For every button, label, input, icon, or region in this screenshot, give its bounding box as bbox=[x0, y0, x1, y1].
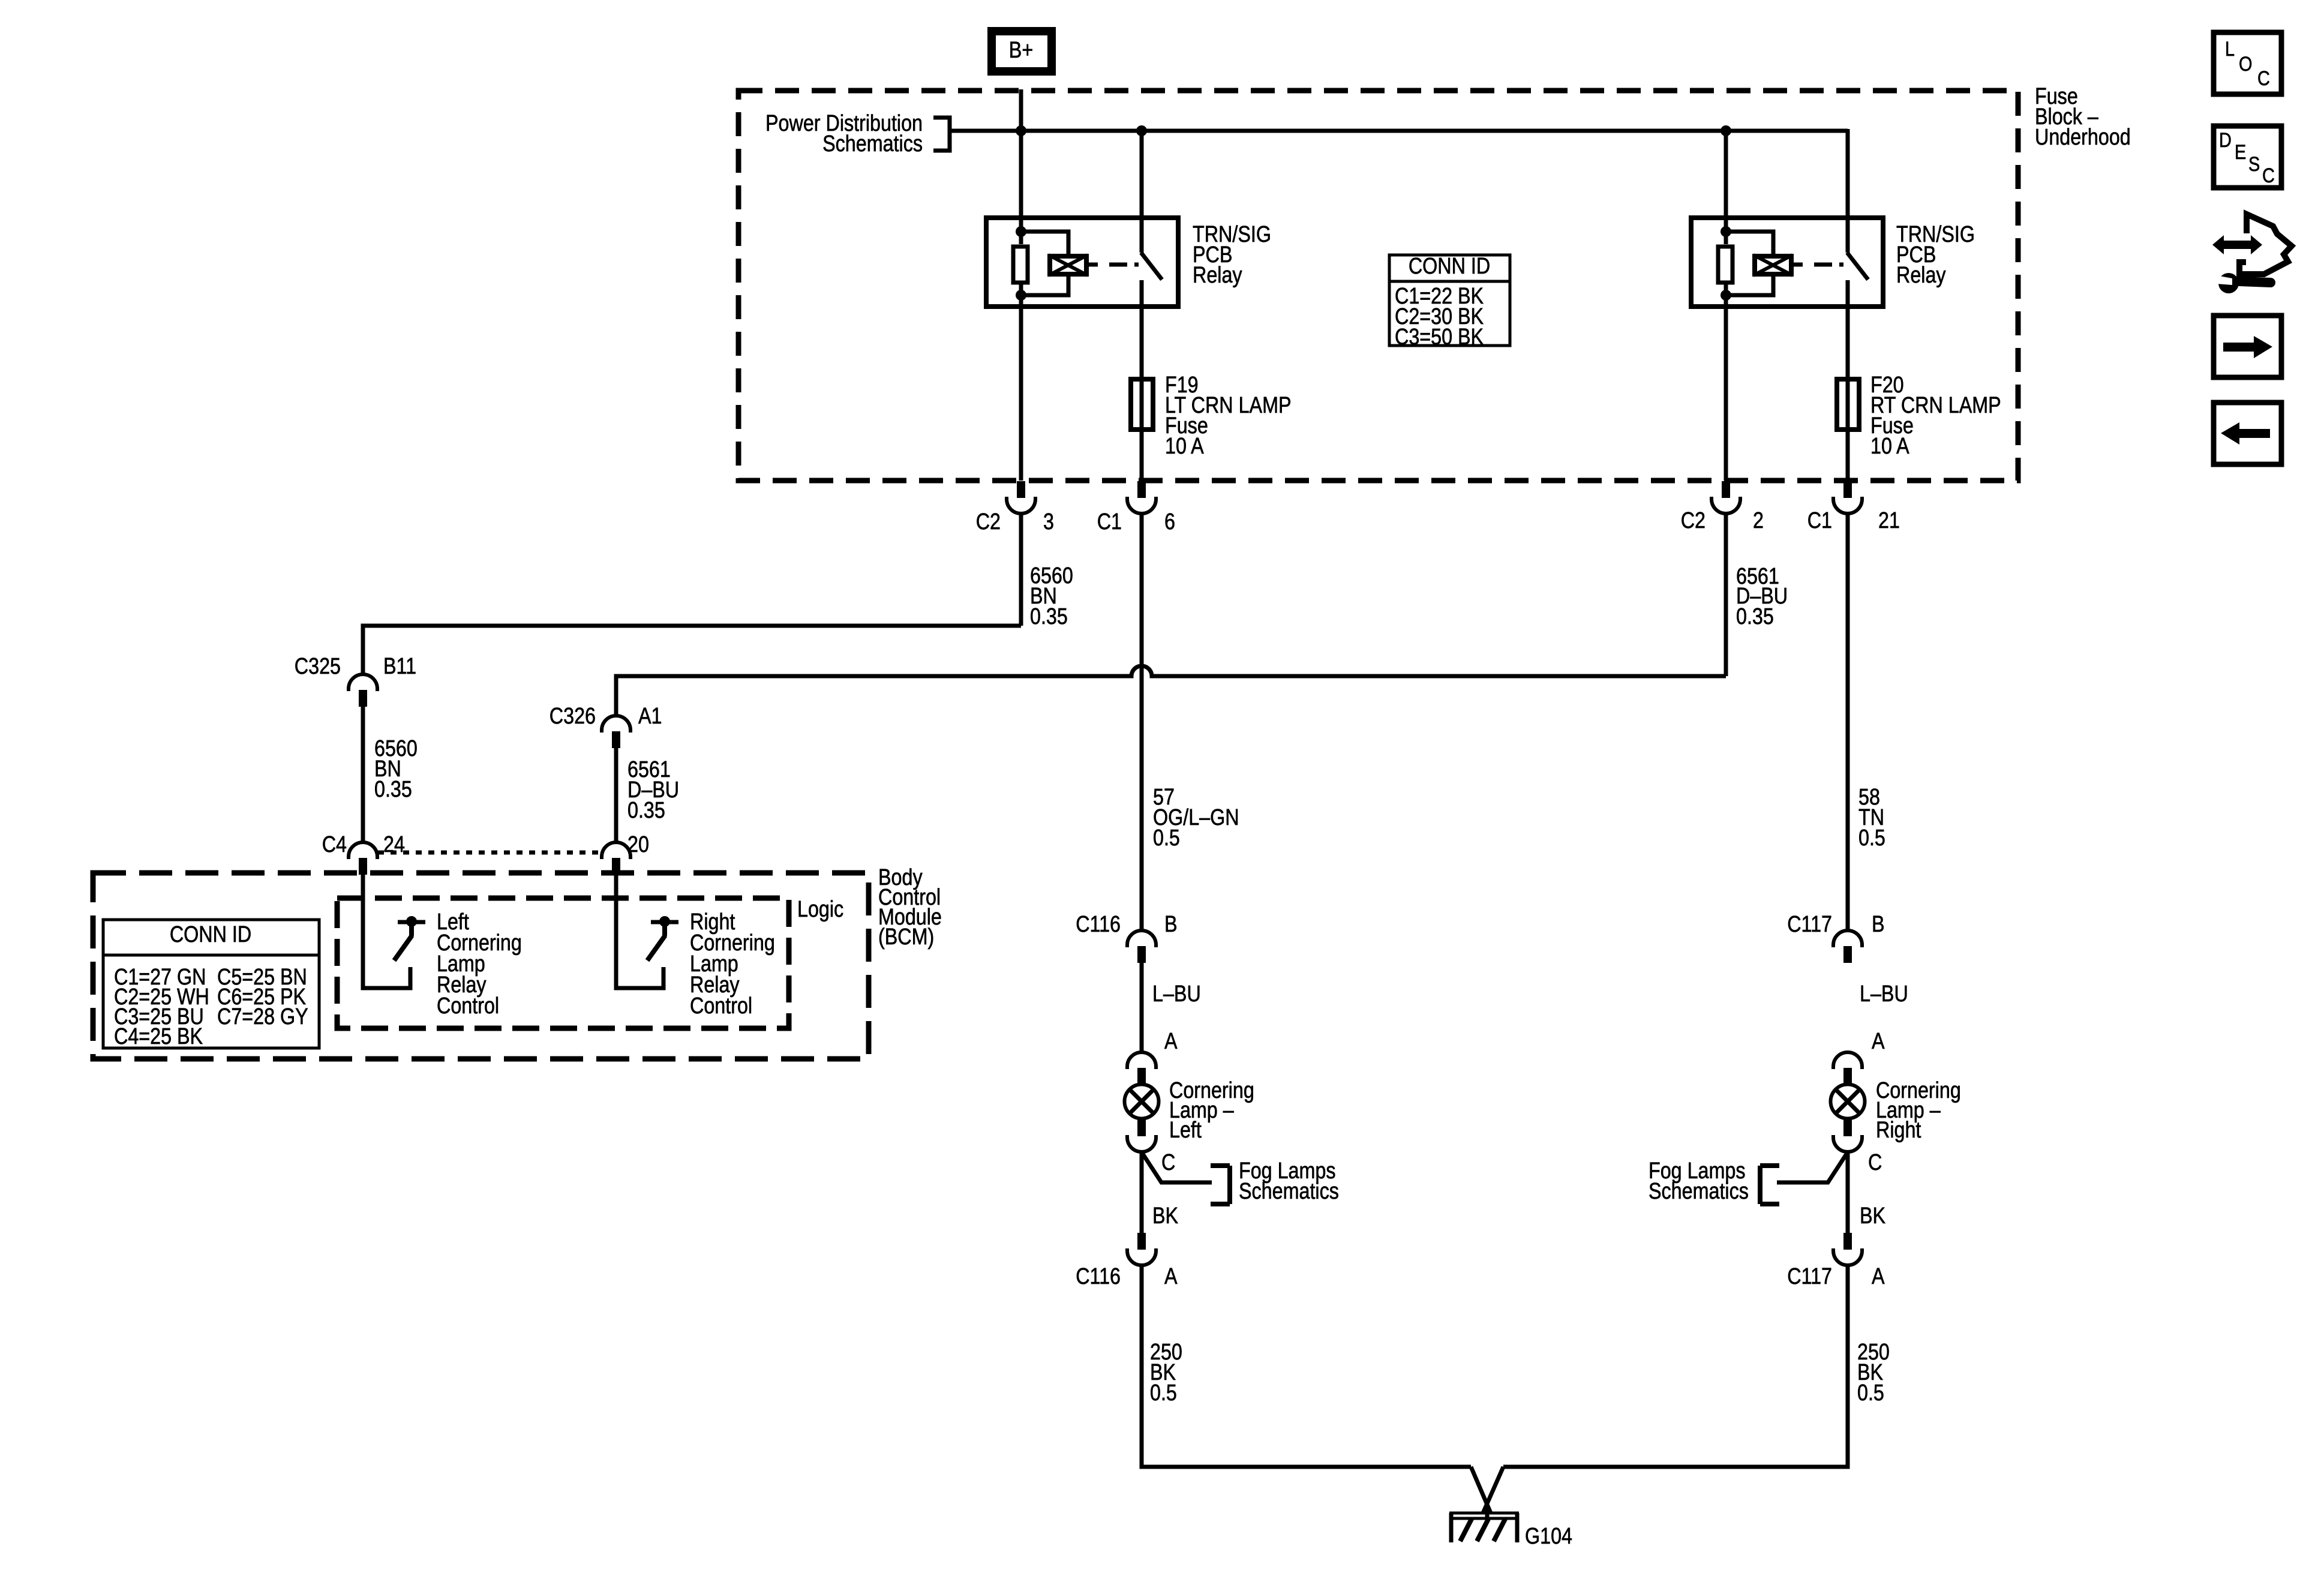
svg-text:CONN ID: CONN ID bbox=[1409, 254, 1490, 279]
svg-text:0.35: 0.35 bbox=[1736, 604, 1774, 629]
svg-text:0.35: 0.35 bbox=[1030, 604, 1068, 629]
svg-text:C325: C325 bbox=[295, 654, 341, 679]
svg-text:C: C bbox=[2257, 67, 2270, 90]
svg-text:L–BU: L–BU bbox=[1860, 981, 1908, 1007]
svg-text:C117: C117 bbox=[1787, 912, 1832, 937]
svg-text:(BCM): (BCM) bbox=[878, 924, 934, 950]
svg-text:C1: C1 bbox=[1807, 508, 1832, 533]
svg-text:A: A bbox=[1872, 1029, 1885, 1054]
svg-text:E: E bbox=[2235, 140, 2246, 164]
svg-text:C: C bbox=[2262, 164, 2275, 187]
svg-text:A: A bbox=[1164, 1029, 1178, 1054]
svg-text:C116: C116 bbox=[1076, 912, 1121, 937]
svg-text:C117: C117 bbox=[1787, 1264, 1832, 1289]
svg-text:B+: B+ bbox=[1009, 38, 1033, 63]
svg-text:CONN ID: CONN ID bbox=[170, 922, 251, 947]
svg-text:0.5: 0.5 bbox=[1150, 1380, 1177, 1406]
svg-text:Right: Right bbox=[1876, 1118, 1921, 1143]
svg-text:C4: C4 bbox=[322, 832, 347, 857]
svg-text:6: 6 bbox=[1164, 509, 1175, 535]
svg-text:BK: BK bbox=[1152, 1203, 1179, 1229]
svg-text:0.5: 0.5 bbox=[1858, 825, 1885, 851]
svg-text:C326: C326 bbox=[550, 704, 596, 729]
svg-text:Logic: Logic bbox=[797, 897, 843, 922]
svg-text:21: 21 bbox=[1878, 508, 1900, 533]
svg-text:BK: BK bbox=[1860, 1203, 1886, 1229]
svg-text:B: B bbox=[1164, 912, 1178, 937]
svg-text:C2: C2 bbox=[1681, 508, 1706, 533]
svg-text:A: A bbox=[1164, 1264, 1178, 1289]
svg-text:Schematics: Schematics bbox=[1649, 1179, 1749, 1204]
svg-text:B11: B11 bbox=[383, 654, 416, 679]
svg-text:C: C bbox=[1868, 1150, 1882, 1175]
svg-text:G104: G104 bbox=[1525, 1524, 1572, 1549]
svg-text:S: S bbox=[2248, 152, 2260, 176]
svg-text:24: 24 bbox=[383, 832, 405, 857]
svg-text:B: B bbox=[1872, 912, 1885, 937]
svg-text:3: 3 bbox=[1043, 509, 1054, 535]
svg-text:Relay: Relay bbox=[1896, 263, 1946, 288]
svg-text:0.35: 0.35 bbox=[374, 777, 412, 802]
svg-text:0.5: 0.5 bbox=[1857, 1380, 1884, 1406]
svg-text:A: A bbox=[1872, 1264, 1885, 1289]
svg-text:2: 2 bbox=[1753, 508, 1764, 533]
svg-text:C2: C2 bbox=[976, 509, 1001, 535]
svg-text:Control: Control bbox=[437, 993, 499, 1019]
svg-text:C116: C116 bbox=[1076, 1264, 1121, 1289]
svg-text:L–BU: L–BU bbox=[1152, 981, 1201, 1007]
svg-text:C3=50 BK: C3=50 BK bbox=[1395, 325, 1484, 350]
svg-text:D: D bbox=[2219, 128, 2232, 152]
svg-text:20: 20 bbox=[627, 832, 649, 857]
svg-text:10 A: 10 A bbox=[1870, 434, 1909, 459]
svg-text:C1: C1 bbox=[1097, 509, 1122, 535]
svg-text:Left: Left bbox=[1169, 1118, 1202, 1143]
svg-text:Underhood: Underhood bbox=[2035, 125, 2131, 150]
svg-text:C4=25 BK: C4=25 BK bbox=[114, 1024, 203, 1049]
svg-text:Schematics: Schematics bbox=[1239, 1179, 1339, 1204]
svg-text:0.35: 0.35 bbox=[627, 798, 665, 823]
svg-text:Relay: Relay bbox=[1193, 263, 1242, 288]
svg-text:C: C bbox=[1161, 1150, 1175, 1175]
svg-text:C7=28 GY: C7=28 GY bbox=[217, 1004, 308, 1029]
svg-text:10 A: 10 A bbox=[1165, 434, 1204, 459]
svg-text:A1: A1 bbox=[638, 704, 662, 729]
svg-text:0.5: 0.5 bbox=[1153, 825, 1180, 851]
svg-text:L: L bbox=[2225, 37, 2235, 61]
svg-text:Control: Control bbox=[690, 993, 752, 1019]
svg-text:Schematics: Schematics bbox=[822, 131, 923, 157]
svg-text:O: O bbox=[2239, 52, 2252, 76]
